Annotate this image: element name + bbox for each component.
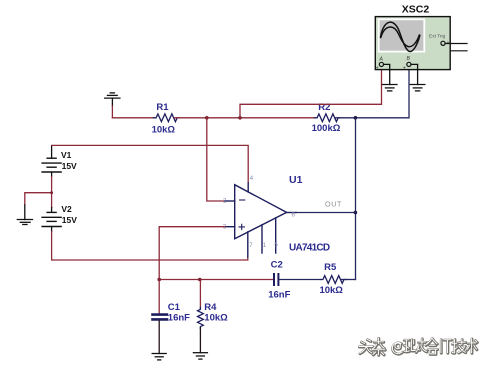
scope B minus lead to ground <box>411 64 418 84</box>
char I <box>440 340 443 353</box>
battery V1 <box>42 147 61 177</box>
oscilloscope XSC2 body <box>375 17 450 70</box>
ground top-left (flipped) <box>105 93 120 106</box>
wire V2 bottom to op-amp pin7 <box>52 232 248 261</box>
wire scope channel A (red) <box>240 67 382 118</box>
wire op-amp pin3 to bottom node <box>159 227 225 280</box>
Ext Trig terminal <box>441 41 445 45</box>
ground below R4 <box>193 353 207 359</box>
op-amp U1 <box>225 183 296 257</box>
scope A minus lead to ground <box>384 64 390 84</box>
capacitor C2 <box>274 274 278 285</box>
scope trace sine wave <box>381 22 420 51</box>
svg-text:+: + <box>403 66 406 72</box>
svg-text:5: 5 <box>274 242 278 248</box>
wire vertical output net R2 junction down to R5 corner <box>355 118 357 280</box>
svg-text:R5: R5 <box>324 262 337 273</box>
node junction battery midpoint <box>50 191 53 194</box>
svg-text:6: 6 <box>292 212 296 218</box>
terminal A <box>379 62 383 66</box>
svg-text:10kΩ: 10kΩ <box>319 285 343 296</box>
svg-text:7: 7 <box>249 243 253 249</box>
wire V1 bottom to V2 top with ground branch <box>25 177 52 208</box>
svg-text:+: + <box>376 66 379 72</box>
char wo <box>404 340 415 352</box>
resistor R4 <box>198 280 204 353</box>
resistor R5 <box>320 276 346 284</box>
svg-text:U1: U1 <box>289 174 303 186</box>
node junction scope tap <box>238 116 242 120</box>
svg-text:XSC2: XSC2 <box>402 4 430 16</box>
svg-text:V1: V1 <box>61 150 72 160</box>
ground below C1 <box>152 354 166 360</box>
svg-text:15V: 15V <box>62 161 77 171</box>
svg-text:A: A <box>379 57 384 63</box>
svg-text:C2: C2 <box>271 260 283 271</box>
scope trace sine wave 2 <box>381 27 420 47</box>
char tiao <box>373 339 386 356</box>
node junction R4 top <box>198 278 202 282</box>
wire V1 top rail to pin4 <box>52 145 249 183</box>
svg-text:100kΩ: 100kΩ <box>312 123 341 134</box>
capacitor C1 <box>153 280 167 354</box>
watermark toutiao text <box>360 339 478 356</box>
svg-text:16nF: 16nF <box>168 313 190 324</box>
watermark white emboss overlay <box>359 338 477 355</box>
terminal B <box>407 62 411 66</box>
node junction output feedback at R2 right <box>354 116 358 120</box>
svg-text:10kΩ: 10kΩ <box>204 313 228 324</box>
svg-text:1: 1 <box>263 243 267 249</box>
node junction at OUT line <box>354 211 358 215</box>
svg-text:4: 4 <box>250 176 254 182</box>
battery V2 <box>42 208 61 232</box>
svg-text:10kΩ: 10kΩ <box>152 124 176 135</box>
wire C2 to R5 (navy) <box>279 279 320 281</box>
wire R1 right to R2 left <box>175 117 315 119</box>
char T <box>444 340 451 353</box>
ground scope A <box>382 85 397 91</box>
char shu <box>467 339 477 353</box>
svg-text:R1: R1 <box>156 102 169 113</box>
char ji <box>452 340 465 354</box>
node junction C1 top <box>157 278 161 282</box>
char hui <box>428 339 438 355</box>
wire feedback vertical to pin2 <box>207 118 225 201</box>
char at <box>393 343 403 354</box>
ground left (battery midpoint) <box>17 205 32 225</box>
Ext Trig stubs <box>445 44 467 51</box>
wire main horizontal net (left segment from ground to R1) <box>112 117 153 119</box>
node junction at R1-feedback <box>205 116 209 120</box>
ground scope B <box>410 85 425 91</box>
svg-text:R4: R4 <box>204 302 217 313</box>
wire bottom node horizontal to C2 <box>159 279 273 281</box>
wire R2 right to scope B corner (blue net) <box>336 67 410 118</box>
char tou <box>360 340 374 354</box>
resistor R1 <box>154 114 180 122</box>
svg-text:C1: C1 <box>168 302 181 313</box>
wire ground stub to main wire <box>111 106 113 118</box>
scope screen <box>379 19 425 51</box>
wire R5 right corner up to OUT junction <box>342 279 356 281</box>
svg-text:UA741CD: UA741CD <box>289 243 330 254</box>
resistor R2 <box>315 114 341 122</box>
svg-text:15V: 15V <box>62 215 77 225</box>
svg-text:Ext Trig: Ext Trig <box>429 34 446 40</box>
svg-text:OUT: OUT <box>325 199 342 208</box>
svg-text:V2: V2 <box>61 204 72 214</box>
wire OUT line op-amp output to feedback vertical <box>296 212 355 214</box>
svg-text:16nF: 16nF <box>268 290 290 301</box>
char long <box>416 339 428 353</box>
